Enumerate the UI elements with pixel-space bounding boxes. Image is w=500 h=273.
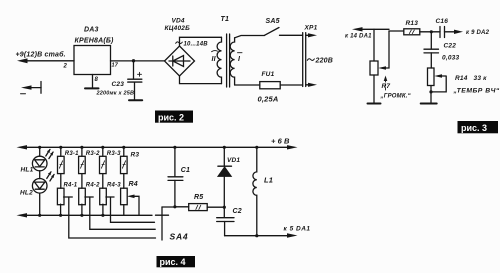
node junction [430,30,433,33]
common-wire arrow symbol (left floating) [21,82,42,94]
regulator DA3 КРЕН8А(Б) [74,27,114,75]
svg-text:I: I [238,56,241,63]
svg-text:C1: C1 [181,167,190,174]
svg-text:C22: C22 [444,43,457,50]
ground stub of DA3 pin 8 [85,75,99,89]
LED HL2 [20,172,54,216]
potentiometer R14 33k ТЕМБР ВЧ [428,68,500,95]
svg-text:R3-1: R3-1 [65,151,79,157]
capacitor C16 [436,18,449,38]
svg-text:220В: 220В [315,58,334,65]
ground of C23 [129,99,142,101]
svg-text:R3: R3 [131,152,140,159]
ground of R14 [421,86,437,104]
switch SA5 [265,18,303,35]
svg-text:+6В: +6В [271,137,292,146]
svg-text:C2: C2 [233,208,242,215]
capacitor C22 0.033 [424,32,459,68]
wire R13 to node [420,31,440,33]
svg-text:R14 33 к: R14 33 к [455,75,487,82]
svg-text:R3-2: R3-2 [86,151,100,157]
svg-text:HL1: HL1 [21,167,34,174]
fuse FU1 0.25A [258,71,281,104]
svg-text:к 5 DA1: к 5 DA1 [284,226,311,233]
wire fuse to plug [280,84,302,86]
caption fig 4 [157,256,196,267]
transformer T1 secondary winding II [212,37,222,83]
svg-text:R4-3: R4-3 [107,183,121,189]
svg-text:Т1: Т1 [221,16,230,23]
svg-text:„ТЕМБР ВЧ“: „ТЕМБР ВЧ“ [453,88,500,95]
bottom right rail to 5 DA1 with arrow [225,226,311,238]
label ~220V [307,59,314,61]
plug XP1 [303,25,318,87]
svg-text:VD1: VD1 [227,157,240,164]
potentiometer R4-3 [100,183,155,223]
svg-text:II: II [212,56,217,63]
svg-text:R4-2: R4-2 [86,183,100,189]
resistor R13 [404,20,420,35]
svg-text:C16: C16 [436,18,449,25]
wire to R5 [175,206,189,208]
svg-text:КРЕН8А(Б): КРЕН8А(Б) [75,38,115,45]
svg-text:R13: R13 [406,20,419,27]
capacitor C2 [217,207,242,236]
bridge rectifier VD4 КЦ402Б [165,18,195,77]
node junction L1 bottom [255,234,258,237]
svg-text:R4-1: R4-1 [64,183,78,189]
potentiometer R4 with wiper arrow [121,181,139,215]
svg-text:R5: R5 [194,194,203,201]
svg-text:ХР1: ХР1 [304,25,318,32]
resistor R3-3 [100,147,122,188]
transformer T1 primary winding I [230,38,242,85]
svg-text:SA4: SA4 [170,232,189,242]
svg-text:+9(12)В стаб.: +9(12)В стаб. [16,51,66,59]
svg-text:„ГРОМК.“: „ГРОМК.“ [380,94,411,100]
svg-text:8: 8 [95,77,99,83]
node junction below R14 [429,90,432,93]
svg-text:КЦ402Б: КЦ402Б [165,25,191,32]
switch SA4 [156,207,189,242]
svg-text:2200мк х 25В: 2200мк х 25В [96,91,135,97]
svg-text:R3-3: R3-3 [107,151,121,157]
svg-text:0,033: 0,033 [442,55,459,62]
ground of R7 [368,75,381,104]
svg-text:рис. 4: рис. 4 [160,257,186,267]
caption fig 2 [155,111,193,123]
inductor L1 [253,147,273,235]
LED HL1 [21,147,54,178]
svg-text:HL2: HL2 [20,190,33,197]
top rail +6V with arrows [17,137,298,150]
wire +9(12)V stab output with arrow [16,51,75,64]
caption fig 3 [458,121,499,133]
wire to pin 14 DA1 with arrow [345,27,389,39]
svg-text:FU1: FU1 [262,71,275,78]
label ~10...14V [176,42,183,44]
svg-text:0,25А: 0,25А [258,95,279,104]
resistor R5 [189,194,208,211]
wire down to R7 top [373,29,375,61]
svg-text:2: 2 [63,64,68,70]
diode VD1 [218,147,241,207]
node junction C23 [132,59,135,62]
wire primary bottom to fuse [235,84,260,86]
potentiometer R7 [370,31,411,100]
node junction SA4/C1/R5 [173,205,176,208]
wire primary top to switch [235,36,265,38]
svg-text:DA3: DA3 [84,27,99,34]
wire DA3 out to bridge [111,60,165,62]
svg-text:к 9 DA2: к 9 DA2 [466,30,490,36]
svg-text:L1: L1 [264,176,273,185]
svg-text:C23: C23 [112,81,125,88]
svg-text:VD4: VD4 [172,18,185,25]
capacitor C1 [168,147,190,207]
resistor R3 [121,147,140,188]
wire bridge bottom to T1 secondary [180,76,222,84]
svg-text:рис. 3: рис. 3 [461,123,487,133]
wire to R13 [389,30,404,32]
svg-text:17: 17 [112,63,119,69]
transformer T1 core [227,34,230,87]
capacitor C23 electrolytic [96,61,142,100]
wire to pin 9 DA2 with arrow [445,30,490,36]
resistor R3-1 [58,147,80,188]
potentiometer R4-2 [79,183,156,230]
svg-text:10...14В: 10...14В [184,42,209,48]
svg-text:рис. 2: рис. 2 [158,112,184,122]
wire XP1 bottom arrow [306,83,317,87]
node junction VD1/R5/C2 [223,206,226,209]
svg-text:к 14 DA1: к 14 DA1 [345,34,372,40]
wire XP1 top arrow [306,33,317,37]
rail junction dots [38,146,258,149]
svg-text:R4: R4 [129,181,138,188]
bottom rail junction dots [38,214,104,217]
potentiometer R4-1 [57,183,155,239]
wire bridge top to T1 secondary [180,37,222,46]
resistor R3-2 [79,147,100,188]
bottom left rail with arrow [17,213,153,217]
svg-text:SA5: SA5 [266,18,280,25]
wire R5 to node [207,206,224,208]
